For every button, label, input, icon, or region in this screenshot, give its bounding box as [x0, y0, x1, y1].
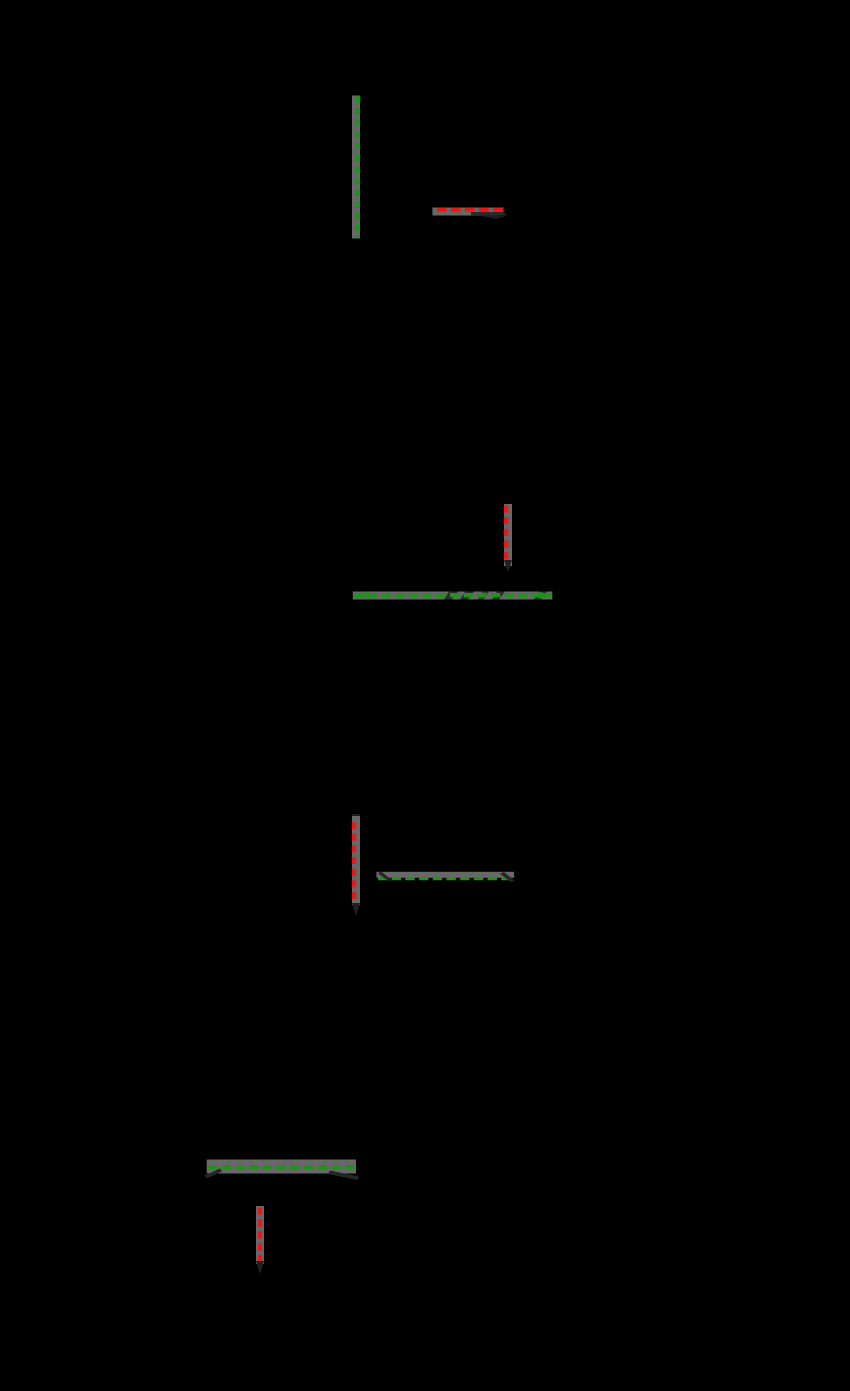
- arrowhead: green hook at top of activation A: [356, 96, 361, 101]
- arrowhead: dark down-pointing head of bottom red message: [256, 1261, 264, 1274]
- wire: red dashed arrow halo (vertical, bottom): [256, 1206, 264, 1264]
- wire: red dashed message (vertical, mid-upper): [504, 506, 508, 563]
- wire: red dashed arrow halo (vertical, lower-mid) with dark cap: [352, 814, 360, 823]
- arrowhead: dark open head at right end (diagonal): [500, 872, 515, 882]
- arrowhead: dark down-pointing head of lower-mid red message: [352, 903, 360, 916]
- wire: green dashed message (horizontal, middle): [354, 593, 551, 597]
- wire: red dashed message (horizontal, upper): [437, 208, 503, 212]
- arrowhead: green right-pointing head at right end: [537, 591, 552, 599]
- arrowhead: green left-pointing head at left end: [353, 591, 370, 599]
- arrowhead: dark chevrons mid-line (overlapping heads): [444, 592, 458, 600]
- arrowhead: dark open head at left end (diagonal): [378, 872, 392, 882]
- wire: green dashed double-lane halo (horizontal, bottom): [207, 1160, 356, 1174]
- wire: green dashed message (horizontal, bottom): [208, 1165, 355, 1169]
- wire: green dashed return halo (horizontal, lower-mid): [376, 872, 514, 878]
- wire: green dashed message (horizontal, lower-mid): [378, 877, 513, 880]
- wire: green dashed double arrow halo (horizontal, middle): [353, 592, 553, 600]
- arrowhead: dark open head at right end of bottom message: [328, 1171, 359, 1181]
- wire: red dashed message (vertical, lower-mid): [352, 822, 356, 904]
- arrowhead: dark open head at left end of bottom message: [205, 1169, 223, 1179]
- arrowhead: dark right-pointing head of upper red message: [471, 212, 507, 216]
- wire: red dashed arrow halo (vertical, mid-upper): [504, 504, 512, 566]
- arrowhead: dark down-pointing head of mid red message: [504, 560, 512, 572]
- wire: green dashed activation A (vertical): [356, 96, 360, 238]
- wire: red dashed arrow halo (horizontal, upper): [432, 208, 503, 216]
- wire: lifeline A halo (top green segment): [352, 96, 360, 239]
- wire: red dashed message (vertical, bottom): [258, 1208, 262, 1263]
